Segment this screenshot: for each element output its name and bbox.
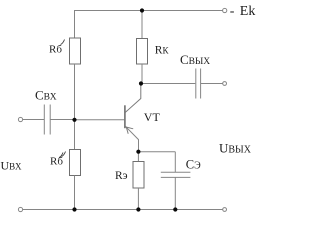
node junction dot bottom rail Ce [173,207,177,211]
capacitor Cin left plate [43,105,45,135]
capacitor Ce top plate [161,171,191,173]
transistor VT emitter arrow (PNP) [126,127,133,134]
wire collector node to Cout [141,83,196,85]
svg-text:Rэ: Rэ [115,170,128,182]
terminal output top circle [223,82,227,86]
wire base node down to Rb2 [74,120,76,150]
svg-text:СЭ: СЭ [186,158,201,172]
capacitor Ce bottom plate [161,176,191,178]
resistor Re body [133,162,144,189]
wire Rb2 to bottom rail [74,176,76,210]
node junction dot top rail / Rk [140,8,144,12]
svg-text:UВЫХ: UВЫХ [219,141,252,156]
resistor Rb1 body [70,38,81,64]
wire Ce bottom plate to bottom rail [174,177,176,209]
wire input terminal to Cin [23,119,44,121]
wire Cin to base node [50,119,74,121]
svg-text:-: - [230,4,235,19]
wire left column (Rb1 to base node) [74,64,76,120]
svg-text:VT: VT [144,110,161,124]
wire left column top (rail to Rb1) [74,10,76,38]
transistor VT emitter lead [125,126,138,152]
svg-text:СВХ: СВХ [35,88,57,103]
wire Ce column down to top plate [174,152,176,172]
terminal input bottom circle [18,207,22,211]
svg-text:UВХ: UВХ [1,159,22,173]
transistor VT collector lead [125,84,141,113]
wire Rk to collector node [141,64,142,84]
svg-text:Ek: Ek [240,4,256,19]
wire base node to transistor base [75,119,125,121]
node emitter junction wire to Ce [138,151,175,153]
wire bottom ground rail [23,209,223,211]
capacitor Cin right plate [49,105,51,135]
node junction dot bottom rail Re [136,207,140,211]
terminal input circle [18,117,22,121]
terminal output bottom circle [223,208,227,212]
svg-text:Rб: Rб [49,44,62,56]
label Rb1 prime mark [61,40,65,45]
node junction dot base node [72,118,76,122]
resistor Rk body [137,39,148,65]
wire Re to bottom rail [137,188,139,210]
svg-text:СВЫХ: СВЫХ [180,52,210,67]
terminal -Ek circle [223,8,227,12]
capacitor Cout left plate [195,69,197,99]
svg-text:RК: RК [155,45,170,57]
wire Rk column top (rail to Rk) [141,10,143,39]
node junction dot bottom rail Rb2 [72,207,76,211]
wire Cout to output terminal [201,83,223,85]
wire emitter node down to Re [137,152,139,162]
transistor VT base bar [124,105,126,128]
node junction dot collector node [139,81,143,85]
resistor Rb2 body [70,150,81,176]
label Rb2 double prime mark [59,152,66,158]
svg-text:Rб: Rб [50,156,63,168]
capacitor Cout right plate [200,69,202,99]
wire top supply rail [75,10,223,12]
node junction dot emitter node [136,150,140,154]
